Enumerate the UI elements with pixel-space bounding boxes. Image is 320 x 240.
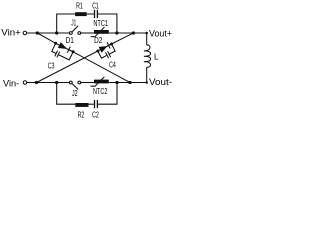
wire J1 to NTC1 [81,32,94,34]
svg-text:NTC2: NTC2 [93,87,108,96]
capacitor C1 [95,10,98,18]
terminal Vin- [23,81,27,85]
wire NTC1 to top right corner [109,32,147,34]
wire right bus lower [146,67,148,82]
wire diagonal B [37,33,134,83]
wire bottom row left [27,82,70,84]
terminal Vin+ [23,31,27,35]
svg-text:Vin+: Vin+ [1,28,21,38]
node junction diagonal B top [132,31,135,34]
capacitor C2 [95,100,98,108]
node junction C1 branch [115,31,118,34]
svg-text:NTC1: NTC1 [93,19,108,28]
node junction diagonal A tap [36,31,39,34]
thermistor NTC2 [91,77,109,87]
resistor R1 [75,12,87,16]
svg-text:J2: J2 [72,89,78,98]
node junction diagonal B tap [35,81,38,84]
node D1 anode [54,42,57,45]
wire C2 right and up [98,83,117,105]
inductor L [144,45,151,67]
wire J2 to NTC2 [81,82,94,84]
wire R1 to C1 [87,13,94,15]
resistor R2 [75,103,88,107]
wire top row left [27,32,70,34]
switch J1 [69,26,80,35]
diode D2 with capacitor C4 loop [96,41,116,61]
svg-text:Vout-: Vout- [149,77,172,87]
svg-text:C2: C2 [92,110,99,119]
node junction R1 branch tap [55,31,58,34]
svg-text:C4: C4 [109,60,116,69]
wire bottom row right [109,82,147,84]
node junction R2 branch tap [55,81,58,84]
svg-text:L: L [154,53,159,62]
node D2 anode [96,50,99,53]
wire R2 branch left [57,83,76,105]
svg-text:D2: D2 [94,36,103,45]
switch J2 [69,81,80,89]
svg-text:J1: J1 [71,19,76,28]
svg-text:Vin-: Vin- [3,78,19,88]
svg-text:C1: C1 [92,2,99,11]
svg-text:R2: R2 [78,110,85,119]
svg-text:Vout+: Vout+ [149,28,172,38]
svg-text:D1: D1 [66,36,75,45]
node D1 cathode [72,50,75,53]
thermistor NTC1 [91,27,109,36]
node corner top right [145,32,148,35]
node corner bottom right [145,81,148,84]
node junction diagonal A bottom [128,81,131,84]
wire diagonal A [37,33,130,83]
diode D1 with capacitor C3 loop [50,40,74,63]
wire R2 to C2 [89,103,94,105]
wire C1 right and down [98,14,117,33]
wire R1 branch left vertical [57,14,75,33]
node junction R2C2 right tap [115,81,118,84]
wire right bus upper [146,33,148,45]
svg-text:C3: C3 [48,61,55,70]
svg-text:R1: R1 [76,2,83,11]
node D2 cathode [110,43,113,46]
